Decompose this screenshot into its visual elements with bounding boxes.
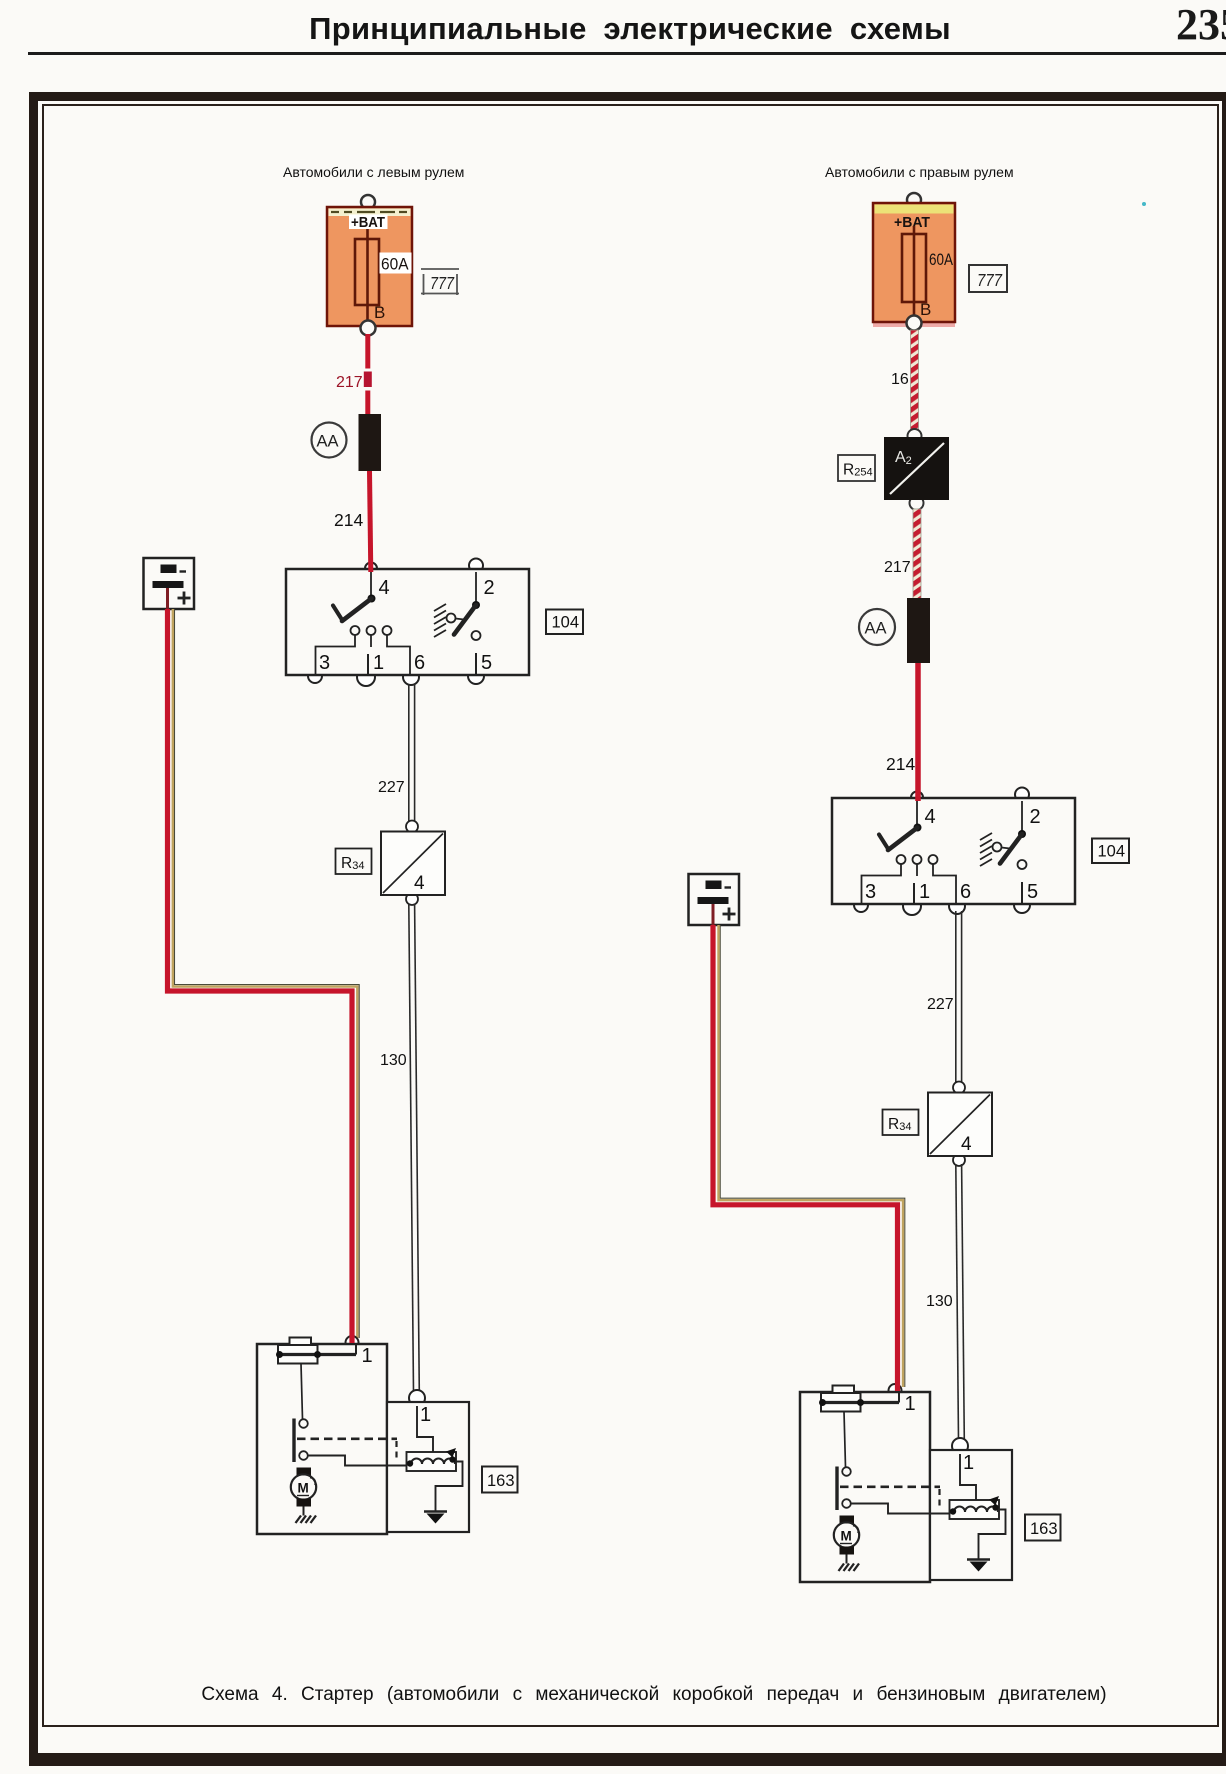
fuse box 777 (right) <box>873 193 955 331</box>
wire 217 (left, red) <box>336 334 372 415</box>
relay R34 (left) <box>336 821 446 906</box>
heading left column <box>283 164 464 180</box>
fuse box 777 (left) <box>327 195 412 336</box>
title underline <box>28 52 1226 55</box>
svg-text:227: 227 <box>927 996 954 1013</box>
cyan speck <box>1142 202 1146 206</box>
wire 130 (right) <box>926 1164 964 1440</box>
label 777 (left) <box>421 269 459 295</box>
svg-text:R254: R254 <box>843 462 873 479</box>
svg-text:+BAT: +BAT <box>894 214 930 231</box>
svg-text:217: 217 <box>336 374 363 391</box>
battery red wire (left) <box>168 588 360 1338</box>
connector unit R254 with A2 (right) <box>884 429 949 510</box>
page number 235 <box>1176 0 1226 50</box>
ignition switch 104 (left) <box>286 559 583 687</box>
svg-text:130: 130 <box>380 1052 407 1069</box>
svg-text:60A: 60A <box>929 251 953 269</box>
svg-text:+BAT: +BAT <box>351 214 385 231</box>
starter + solenoid 163 (right) <box>800 1384 1061 1582</box>
svg-text:60A: 60A <box>381 256 409 274</box>
battery positive wire red (right) <box>713 925 898 1391</box>
wire 227 (right) <box>927 911 962 1083</box>
svg-text:AA: AA <box>865 620 887 638</box>
svg-text:777: 777 <box>430 273 455 293</box>
label R254 (right) <box>838 455 875 481</box>
heading right column <box>825 164 1014 180</box>
wire 217 (right, striped) <box>884 509 921 599</box>
relay R34 (right) <box>883 1082 993 1167</box>
battery red wire (right) <box>713 904 905 1387</box>
svg-text:B: B <box>920 300 931 319</box>
svg-text:130: 130 <box>926 1293 953 1310</box>
wire 16 (right, striped) <box>891 330 919 435</box>
battery positive wire red (left) <box>168 609 353 1343</box>
label 777 (right) <box>969 265 1007 292</box>
svg-text:B: B <box>374 303 385 322</box>
wire 214 (left) <box>334 471 371 572</box>
svg-text:AA: AA <box>317 433 339 451</box>
ignition switch 104 (right) <box>832 788 1129 916</box>
svg-text:227: 227 <box>378 779 405 796</box>
connector AA (right) <box>859 598 930 663</box>
battery (left) <box>144 558 195 609</box>
svg-text:777: 777 <box>977 270 1003 290</box>
wire 130 (left) <box>380 904 419 1392</box>
caption <box>41 1684 1226 1706</box>
connector AA (left) <box>312 414 382 471</box>
wire 227 (left) <box>378 684 415 822</box>
battery (right) <box>689 874 740 925</box>
wire 214 (right) <box>886 663 918 801</box>
starter + solenoid 163 (left) <box>257 1336 518 1534</box>
frame right edge sliver <box>1222 92 1226 1766</box>
svg-text:16: 16 <box>891 371 909 388</box>
svg-text:214: 214 <box>886 754 915 774</box>
svg-text:217: 217 <box>884 559 911 576</box>
page title <box>17 11 1226 47</box>
svg-text:214: 214 <box>334 510 363 530</box>
